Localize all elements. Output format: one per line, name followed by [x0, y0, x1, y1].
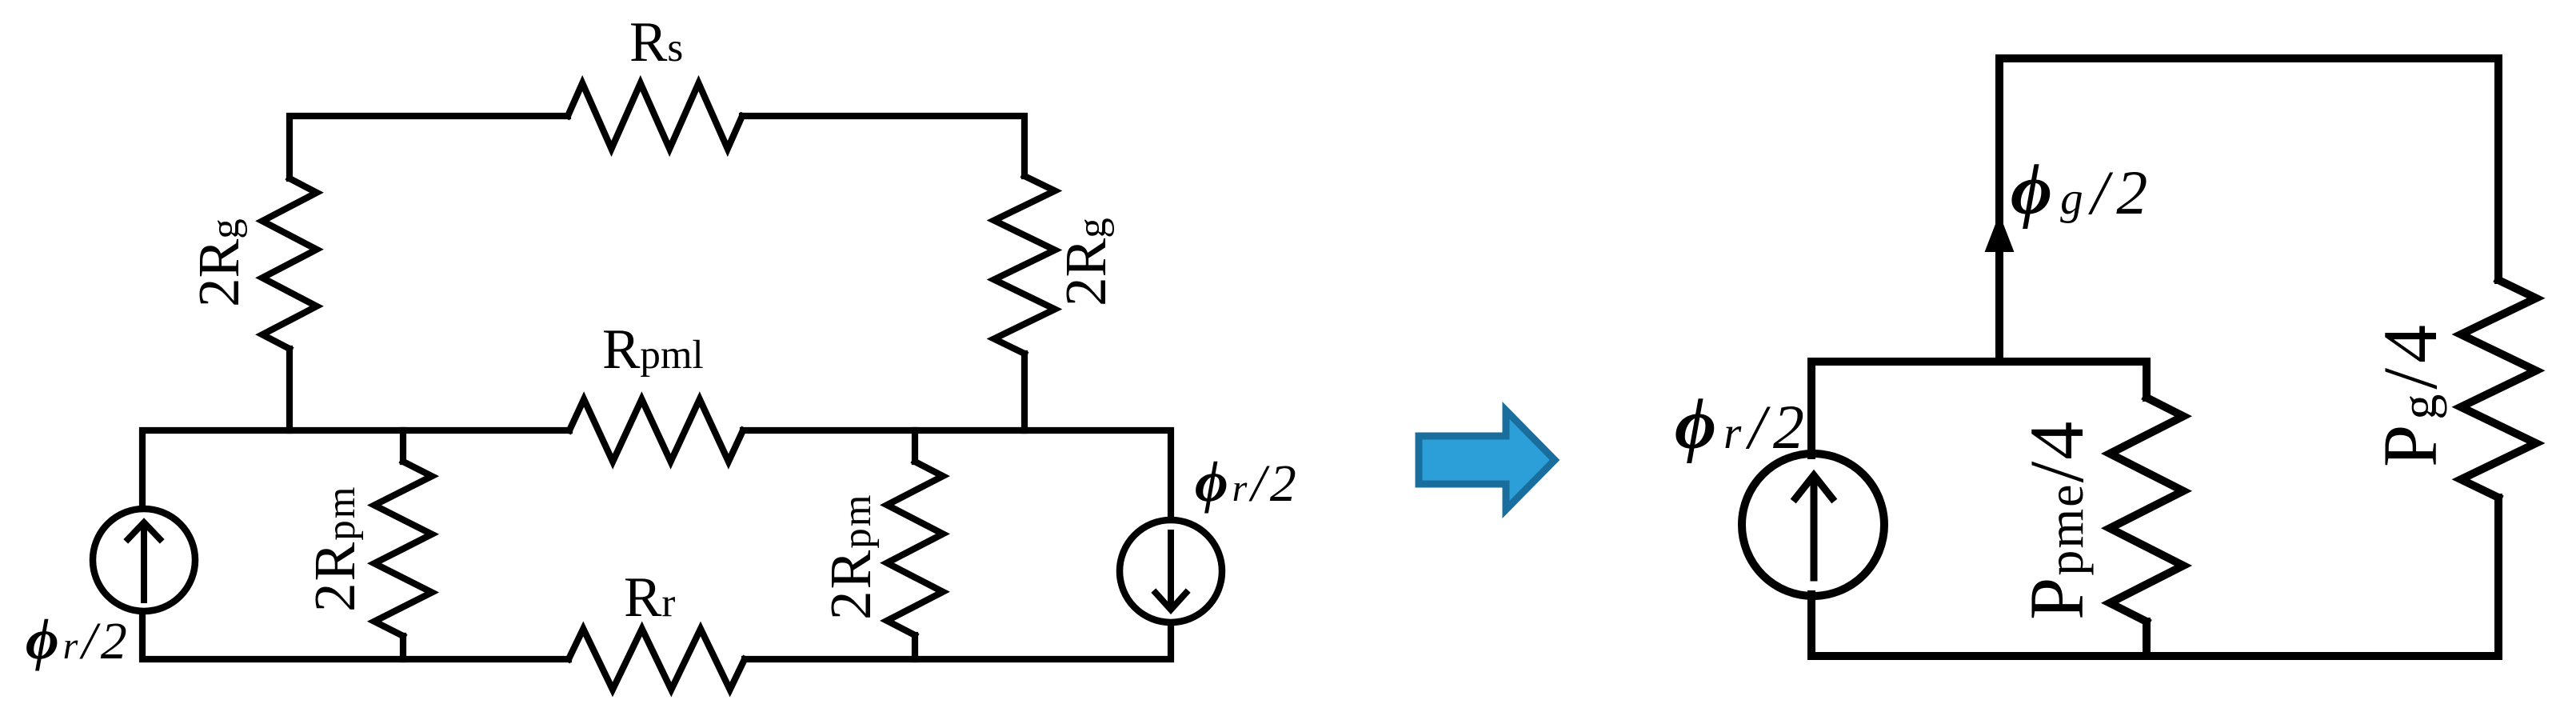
wire: bottom rail left segment: [142, 614, 569, 659]
resistor Rpml: [569, 399, 743, 462]
current source phi_r/2 left: up arrow: [141, 526, 147, 600]
wire: middle rail left segment: [142, 430, 569, 506]
resistor 2Rg left: [262, 178, 317, 349]
resistor 2Rg right: [994, 176, 1055, 354]
current source phi_r/2 right circuit: circle: [1742, 454, 1884, 596]
blue block arrow: [1419, 410, 1555, 510]
current source phi_r/2 right: circle: [1120, 520, 1222, 622]
wire: top-right corner rail: [742, 116, 1024, 176]
wire: middle rail right segment: [743, 430, 1171, 517]
current source phi_r/2 left: circle: [93, 509, 195, 611]
wire: 2Rg left to middle rail: [286, 349, 293, 430]
resistor Pg/4: [2461, 280, 2536, 498]
wire: bottom rail right segment: [745, 626, 1171, 659]
wire: 2Rpm first to bottom rail: [400, 636, 406, 659]
resistor 2Rpm first: [374, 462, 432, 636]
wire: 2Rg right to middle rail: [1021, 354, 1028, 430]
resistor Ppme/4: [2110, 398, 2183, 622]
wire: lead into 2Rpm second: [912, 430, 918, 462]
wire: top-left corner rail: [290, 116, 568, 178]
wire: Ppme/4 to bottom rail: [2143, 622, 2151, 656]
wire: lead into 2Rpm first: [400, 430, 406, 462]
resistor 2Rpm second: [887, 462, 943, 635]
resistor Rs: [568, 83, 742, 149]
wire: 2Rpm second to bottom rail: [912, 635, 918, 659]
wire: phi_g/2 branch shaft, top rail and Pg/4 lead: [1999, 58, 2498, 362]
current source phi_r/2 right: down arrow: [1168, 533, 1174, 605]
current source phi_r/2 right circuit: up arrow: [1811, 480, 1818, 578]
arrowhead of phi_g/2 branch: [1986, 216, 2013, 251]
resistor Rr: [569, 629, 745, 690]
wire: source to bottom rail and right circuit bottom rail: [1811, 498, 2498, 656]
wire: right circuit middle rail: [1811, 362, 2147, 455]
